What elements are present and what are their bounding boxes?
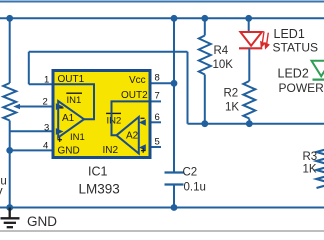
- svg-text:3: 3: [44, 123, 49, 134]
- A2 inverting input arrow (pin6): [139, 119, 146, 125]
- svg-text:8: 8: [155, 73, 160, 84]
- svg-text:POWER: POWER: [279, 81, 324, 95]
- A2 non-inverting input arrow (pin5): [139, 144, 146, 150]
- LED1 cathode bar: [239, 47, 262, 49]
- node junction rail/R4: [201, 15, 208, 22]
- node junction pin8 / Vcc line: [171, 80, 178, 87]
- svg-text:V: V: [0, 188, 3, 200]
- label IN2-bar (pin6): [106, 113, 121, 126]
- svg-text:GND: GND: [58, 146, 80, 157]
- svg-text:R4: R4: [214, 45, 229, 57]
- wire left rail lower segment: [9, 121, 11, 208]
- svg-text:IC1: IC1: [88, 165, 108, 179]
- wire pin1 loop vertical: [28, 52, 30, 85]
- wire pin6 stub: [151, 121, 162, 123]
- top frame line: [0, 1, 324, 3]
- wire output node vertical: [187, 52, 189, 124]
- potentiometer VR1 body: [3, 83, 16, 121]
- A2 plus sign: [141, 148, 146, 153]
- svg-text:LED2: LED2: [278, 67, 309, 81]
- svg-text:0u: 0u: [0, 176, 7, 188]
- svg-text:Vcc: Vcc: [129, 75, 146, 86]
- wire pin3 from left rail: [10, 130, 53, 132]
- svg-text:R2: R2: [224, 88, 239, 100]
- IC1 LM393 body: [53, 71, 150, 158]
- LED2 cathode bar: [313, 78, 324, 80]
- potentiometer VR1 wiper arrow: [13, 104, 20, 109]
- resistor R2: [243, 81, 255, 124]
- op-amp A2 triangle (points left): [117, 117, 139, 154]
- wire pin1 loop horizontal over IC: [29, 51, 188, 53]
- svg-text:4: 4: [43, 141, 48, 152]
- wire A2 output to pin7 (internal): [112, 101, 151, 135]
- capacitor C2 plates: [165, 173, 184, 185]
- wire pin2 from wiper: [20, 106, 53, 108]
- wire pin7 stub: [151, 100, 162, 102]
- svg-text:2: 2: [43, 97, 48, 108]
- node junction rail/left rail: [6, 15, 13, 22]
- wire C2 to ground rail: [173, 185, 175, 208]
- node junction R4 bottom: [201, 120, 208, 127]
- LED1 diode triangle: [240, 32, 262, 46]
- LED2 diode triangle (clipped at right edge): [312, 61, 324, 76]
- ground symbol: [1, 208, 20, 228]
- A1 non-inverting input arrow (pin3): [56, 128, 64, 135]
- svg-text:0.1u: 0.1u: [184, 182, 206, 194]
- bottom frame gray line: [0, 230, 324, 232]
- svg-text:IN2: IN2: [107, 115, 122, 126]
- wire LED1 anode: [248, 18, 250, 32]
- wire left rail upper segment: [9, 18, 11, 83]
- svg-text:IN1: IN1: [70, 132, 85, 143]
- svg-text:OUT2: OUT2: [121, 90, 148, 101]
- svg-text:STATUS: STATUS: [273, 40, 319, 54]
- svg-text:1K: 1K: [225, 102, 239, 114]
- svg-text:IN1: IN1: [67, 95, 82, 106]
- resistor R3 (clipped at right edge): [317, 148, 324, 189]
- svg-text:OUT1: OUT1: [58, 74, 85, 85]
- A1 inverting input arrow (pin2): [56, 103, 64, 110]
- wire pin5 stub: [151, 146, 162, 148]
- label IN1-bar (pin2): [66, 93, 82, 106]
- svg-text:1: 1: [44, 75, 49, 86]
- svg-text:A1: A1: [62, 113, 75, 124]
- svg-text:GND: GND: [27, 214, 57, 229]
- svg-text:R3: R3: [303, 151, 318, 163]
- wire output node horizontal to right edge: [188, 123, 324, 125]
- node junction rail/Vcc line: [171, 15, 178, 22]
- svg-text:10K: 10K: [213, 59, 234, 71]
- svg-text:C2: C2: [183, 167, 198, 179]
- A1 minus sign: [60, 107, 64, 109]
- svg-text:A2: A2: [126, 131, 139, 142]
- wire A1 output to pin1 (internal): [52, 84, 94, 119]
- wire LED1 cathode to R2: [248, 48, 250, 81]
- wire top supply rail: [0, 17, 324, 19]
- A2 minus sign: [141, 117, 145, 119]
- LED1 emission arrows: [261, 32, 269, 49]
- node junction R2 bottom: [246, 120, 253, 127]
- wire pin8 stub: [151, 82, 175, 84]
- svg-text:LM393: LM393: [79, 182, 120, 197]
- wire pin1 stub: [29, 83, 53, 85]
- wire Vcc vertical line: [173, 18, 175, 172]
- node junction pin4 / left rail: [6, 147, 13, 154]
- svg-text:5: 5: [155, 137, 160, 148]
- svg-text:7: 7: [155, 91, 160, 102]
- node junction left rail / ground rail: [6, 204, 13, 211]
- svg-text:1K: 1K: [303, 164, 317, 176]
- op-amp A1 triangle: [58, 101, 84, 138]
- node junction C2 / ground rail: [171, 204, 178, 211]
- resistor R4: [199, 18, 211, 123]
- svg-text:LED1: LED1: [274, 27, 305, 41]
- A1 plus sign: [58, 138, 63, 143]
- wire pin4 from left rail: [10, 149, 53, 151]
- svg-text:IN2: IN2: [103, 145, 119, 156]
- node junction rail/LED1: [245, 15, 252, 22]
- wire bottom ground rail: [0, 207, 324, 209]
- svg-text:6: 6: [155, 112, 160, 123]
